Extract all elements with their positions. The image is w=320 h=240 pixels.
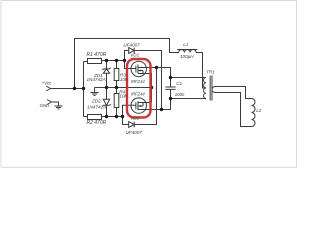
resistor R3 (114, 69, 119, 81)
highlight box MOSFETs (127, 59, 151, 118)
svg-text:L1: L1 (183, 42, 189, 47)
node R3 gnd (115, 86, 118, 89)
zener ZD2 (102, 99, 110, 106)
wire Q2 source lead (143, 102, 152, 104)
node drain1 VD2 (155, 66, 158, 69)
transformer TR1 secondary (212, 87, 215, 93)
diode VD1 (129, 48, 135, 54)
svg-text:100µH: 100µH (180, 54, 194, 59)
svg-text:IRFZ44: IRFZ44 (131, 92, 146, 97)
svg-text:100n: 100n (175, 92, 185, 97)
wire Q1 drain lead (143, 68, 171, 78)
ground symbol mid (91, 88, 99, 96)
wire secondary top lead (215, 87, 252, 99)
inductor L1 (179, 50, 197, 53)
svg-text:L2: L2 (256, 108, 262, 113)
node R4 gate (115, 115, 118, 118)
svg-text:R2 470R: R2 470R (87, 120, 107, 126)
node C1 top (169, 76, 172, 79)
svg-text:1N4742A: 1N4742A (87, 105, 106, 110)
wire primary top lead (171, 77, 207, 79)
inductor L1 core bar (177, 49, 197, 51)
wire VD1 anode branch (125, 51, 129, 61)
wire Q2 drain lead (143, 109, 162, 111)
svg-text:1N4742A: 1N4742A (87, 77, 106, 82)
node +Vcc rail junction (73, 87, 76, 90)
zener ZD1 (102, 68, 110, 74)
transistor Q1 internals (136, 65, 143, 74)
node drain2 VD1 (160, 108, 163, 111)
wire R2 left lead (84, 116, 88, 118)
wire L1 to center tap (196, 53, 206, 89)
wire VD1 cathode to bottom drain (134, 51, 161, 110)
resistor R4 leads (116, 88, 118, 117)
wire GND input (52, 102, 59, 106)
node sources gnd (150, 86, 153, 89)
connector GND (47, 100, 52, 105)
svg-text:UF4007: UF4007 (126, 130, 143, 135)
transistor Q1 gate stub (125, 61, 136, 69)
node R3 gate (115, 59, 118, 62)
svg-text:+Vcc: +Vcc (42, 81, 53, 86)
wire R1 left lead (84, 61, 88, 63)
wire Q1 source lead (143, 74, 152, 103)
svg-text:IRFZ44: IRFZ44 (131, 79, 146, 84)
capacitor C1 plates (165, 87, 175, 89)
zener ZD2 leads (106, 88, 108, 117)
page border frame (1, 1, 297, 168)
resistor R1 (88, 59, 102, 64)
resistor R3 leads (116, 61, 118, 88)
inductor L2 work coil (252, 99, 256, 127)
ground bus (95, 87, 152, 89)
svg-text:TR1: TR1 (206, 69, 215, 74)
svg-text:R1 470R: R1 470R (87, 52, 107, 58)
node ZD1 gate (105, 59, 108, 62)
wire primary bottom lead (171, 98, 207, 100)
node VD2 gate (121, 115, 124, 118)
connector +Vcc (46, 86, 51, 91)
svg-text:VD2: VD2 (130, 116, 139, 121)
resistor R4 (114, 94, 119, 108)
node VD1 gate (123, 59, 126, 62)
wire drain2 to C1 bottom (162, 99, 171, 110)
node R2 rail junction (82, 87, 85, 90)
node ZD1 gnd (105, 86, 108, 89)
ground symbol input (55, 106, 63, 109)
transformer TR1 core (210, 76, 212, 101)
wire secondary bottom lead (215, 93, 252, 127)
svg-text:10K: 10K (120, 77, 129, 82)
transistor Q2 gate stub (123, 105, 136, 116)
wire VD2 cathode to top drain (134, 68, 156, 125)
transistor Q2 circle (131, 98, 146, 113)
resistor R2 (88, 115, 102, 120)
transistor Q1 circle (131, 61, 146, 76)
node C1 bottom (169, 97, 172, 100)
wire Vcc rail down to R2 (83, 62, 85, 117)
diode VD2 (129, 122, 135, 128)
wire top gate line (102, 60, 125, 62)
transformer TR1 primary winding (204, 78, 206, 99)
wire +Vcc feed (51, 88, 84, 90)
svg-text:10K: 10K (119, 93, 128, 98)
wire VD2 anode branch (123, 117, 129, 125)
svg-text:C1: C1 (176, 81, 182, 86)
svg-text:UF4007: UF4007 (123, 43, 140, 48)
transistor Q2 internals (136, 101, 143, 110)
capacitor C1 leads (170, 78, 172, 99)
zener ZD1 leads (106, 61, 108, 88)
svg-text:GND: GND (40, 103, 51, 108)
node ZD2 gate (105, 115, 108, 118)
svg-text:VD1: VD1 (130, 53, 139, 58)
svg-text:ZD2: ZD2 (91, 98, 101, 103)
wire top rail (75, 39, 179, 89)
wire bottom gate line (102, 116, 123, 118)
